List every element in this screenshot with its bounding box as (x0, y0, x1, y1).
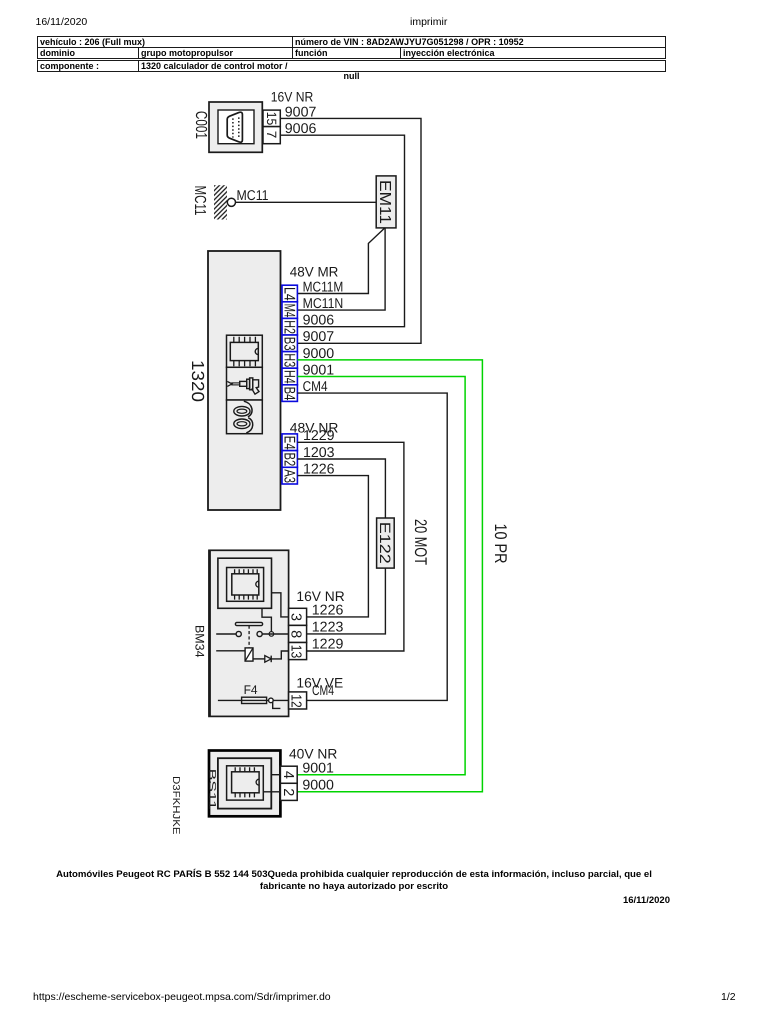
pin L4 of 1320 (280, 285, 297, 302)
splice E122 (376, 518, 394, 568)
svg-text:16V NR: 16V NR (271, 89, 314, 104)
wire MC11M (EM11 to 1320 pin L4) (297, 228, 384, 294)
pin 15 of C001 (263, 110, 280, 127)
footer page number (721, 991, 736, 1003)
pin H2 of 1320 (280, 318, 297, 335)
svg-text:E4: E4 (280, 436, 297, 450)
1320 icon: microprocessor (227, 335, 263, 367)
header date (36, 16, 88, 28)
pin B3 of 1320 (280, 335, 297, 352)
info table 2 (37, 60, 666, 72)
svg-text:1226: 1226 (312, 603, 344, 619)
wire BS11 internal to pin 4 (271, 774, 280, 776)
wire 1223 (splice E122 to BM34 pin 8) (307, 568, 386, 634)
wire diode to pin 13 (271, 651, 288, 659)
pin 2 of BS11 (280, 783, 297, 800)
wire BS11 internal to pin 2 (263, 791, 280, 793)
header title imprimir (410, 16, 447, 28)
wire 9006 (C001 pin 7 to 1320 pin H2) (280, 135, 404, 327)
footer url (33, 991, 331, 1003)
relay unit BM34 body (209, 550, 289, 716)
1320 icon: ignition coil (227, 400, 263, 434)
fuse F4 (218, 697, 289, 708)
wire MC11N (EM11 to 1320 pin M4) (297, 228, 385, 310)
relay contact bar (235, 622, 262, 625)
svg-text:H3: H3 (280, 353, 297, 367)
wire 1226 (1320 pin A3 to BM34 pin 3) (297, 476, 368, 617)
wire 1229 (1320 pin E4 to BM34 pin 13) (297, 442, 404, 651)
junction node (269, 632, 274, 637)
svg-text:9006: 9006 (303, 313, 335, 329)
svg-text:B3: B3 (280, 337, 297, 351)
svg-text:2: 2 (280, 788, 296, 796)
pin 3 of BM34 (288, 608, 307, 625)
null text (37, 71, 666, 81)
svg-text:B4: B4 (280, 387, 297, 401)
svg-text:4: 4 (280, 771, 296, 779)
wire 9007 (C001 pin 15 to 1320 pin B3) (280, 118, 421, 343)
svg-text:M4: M4 (280, 304, 297, 318)
svg-text:B2: B2 (280, 453, 297, 467)
svg-text:20 MOT: 20 MOT (411, 519, 430, 565)
pin 12 of BM34 (288, 692, 307, 709)
svg-text:8: 8 (288, 630, 304, 638)
svg-text:EM11: EM11 (376, 180, 393, 224)
svg-text:BS11: BS11 (206, 769, 217, 811)
svg-text:1229: 1229 (312, 637, 344, 653)
info table 1 (37, 36, 666, 59)
splice EM11 (376, 176, 396, 228)
connector C001 body (209, 102, 262, 152)
pin B2 of 1320 (280, 451, 297, 468)
relay coil (245, 648, 253, 661)
svg-text:MC11: MC11 (237, 188, 269, 204)
svg-text:7: 7 (264, 131, 279, 139)
pin 8 of BM34 (288, 625, 307, 642)
pin E4 of 1320 (280, 434, 297, 451)
wire 1203 (1320 pin B2 to splice E122) (297, 459, 385, 518)
svg-text:9007: 9007 (303, 329, 335, 345)
BM34 computer module box (218, 558, 272, 608)
relay actuation dashed link (248, 626, 250, 648)
svg-text:9000: 9000 (302, 778, 334, 794)
wire 9000 (green, 1320 pin H3 to BS11 pin 2) (297, 360, 482, 792)
svg-text:MC11M: MC11M (303, 279, 344, 295)
footer legal text (37, 869, 671, 892)
svg-text:1223: 1223 (312, 620, 344, 636)
svg-text:F4: F4 (244, 683, 258, 697)
svg-text:15: 15 (264, 112, 279, 126)
wire relay contact to pin 8 (262, 633, 288, 635)
pin B4 of 1320 (280, 385, 297, 402)
svg-text:3: 3 (288, 613, 304, 621)
svg-text:C001: C001 (192, 111, 209, 139)
wire CM4 (1320 pin B4 to BM34 pin 12) (297, 393, 447, 700)
svg-text:A3: A3 (280, 469, 297, 483)
diode D1 (265, 656, 271, 663)
svg-text:1320: 1320 (188, 360, 208, 402)
svg-text:12: 12 (288, 694, 304, 708)
svg-text:13: 13 (288, 645, 304, 659)
svg-text:CM4: CM4 (312, 683, 334, 699)
svg-text:MC11N: MC11N (303, 296, 344, 312)
pin H4 of 1320 (280, 368, 297, 385)
wire MC11 (ground to EM11) (236, 201, 377, 203)
svg-text:H4: H4 (280, 370, 297, 384)
pin 7 of C001 (263, 127, 280, 144)
svg-text:10 PR: 10 PR (491, 524, 510, 564)
wire 9001 (green, 1320 pin H4 to BS11 pin 4) (297, 377, 465, 775)
svg-text:E122: E122 (376, 522, 393, 564)
svg-text:9001: 9001 (302, 761, 334, 777)
pin H3 of 1320 (280, 352, 297, 369)
svg-text:BM34: BM34 (192, 625, 206, 658)
wire computer to pin 3 (272, 593, 289, 617)
ground MC11 (214, 185, 235, 219)
pin 4 of BS11 (280, 766, 297, 783)
control unit BS11 body (209, 751, 280, 817)
pin 13 of BM34 (288, 643, 307, 660)
wire coil to diode (253, 658, 265, 660)
svg-text:MC11: MC11 (191, 186, 208, 216)
wire relay contact left (216, 633, 236, 635)
svg-text:L4: L4 (280, 287, 297, 301)
svg-text:48V MR: 48V MR (290, 264, 339, 279)
relay contact terminals (236, 631, 262, 636)
wire computer to relay junction (262, 608, 271, 634)
svg-text:H2: H2 (280, 320, 297, 334)
svg-text:40V NR: 40V NR (289, 747, 337, 762)
wire coil feed (216, 650, 245, 652)
pin M4 of 1320 (280, 302, 297, 319)
pin A3 of 1320 (280, 467, 297, 484)
1320 icon: injector (227, 367, 263, 400)
ECU 1320 body (208, 251, 281, 510)
svg-text:D3FKHJKE: D3FKHJKE (170, 776, 181, 835)
footer date (37, 895, 670, 906)
